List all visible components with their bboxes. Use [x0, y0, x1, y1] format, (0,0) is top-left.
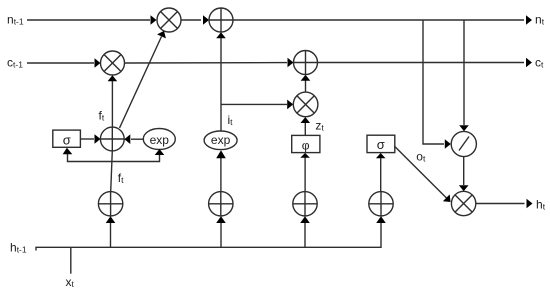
wire E1 to plus G: [124, 134, 143, 144]
svg-text:σ: σ: [377, 137, 385, 152]
wire X3 to h_t output: [476, 199, 533, 209]
wire PH up to X4: [301, 117, 311, 135]
diagonal wire G to X1: [120, 31, 166, 128]
wire riser into J: [106, 216, 116, 247]
plus node G (f gate combiner): [100, 127, 124, 151]
svg-text:nt-1: nt-1: [7, 13, 24, 27]
exp ellipse E2: [204, 131, 237, 150]
svg-text:φ: φ: [302, 139, 310, 153]
svg-text:ft: ft: [118, 171, 124, 185]
wire E2 up to plus P1 with junction: [216, 32, 226, 131]
svg-text:zt: zt: [315, 119, 324, 133]
divide node DIV: [451, 131, 476, 156]
times node X3 (h output gate): [451, 191, 475, 215]
wire riser into L: [300, 216, 310, 247]
svg-text:ot: ot: [416, 150, 426, 164]
wire X4 up to P2: [301, 75, 311, 92]
times node X4 (z gate): [293, 92, 318, 117]
wire DIV to times X3: [459, 157, 469, 192]
svg-text:exp: exp: [211, 133, 231, 147]
svg-text:ct-1: ct-1: [7, 56, 23, 70]
svg-text:ht-1: ht-1: [10, 241, 27, 255]
sigma box S1 (left): [53, 130, 81, 147]
wire G up to X2: [108, 75, 118, 127]
diagonal wire S2 to X3: [394, 146, 450, 202]
wire P2 to c_t output: [318, 58, 533, 68]
wire X1 to plus P1: [181, 15, 209, 25]
svg-text:ct: ct: [535, 56, 544, 70]
plus node P1 (n row): [209, 8, 233, 32]
wire L up to PH: [300, 153, 310, 192]
wire n_t-1 input to times X1: [27, 15, 157, 25]
plus node K (bottom row 2): [209, 192, 233, 216]
bracket wire feeding S1 and E1: [63, 148, 165, 162]
svg-text:σ: σ: [63, 133, 71, 148]
svg-text:ft: ft: [99, 109, 105, 123]
svg-text:xt: xt: [66, 275, 75, 289]
wire X2 to plus P2: [125, 58, 294, 68]
svg-text:nt: nt: [535, 13, 545, 27]
wire riser into K: [216, 216, 226, 247]
wire P1 to n_t output: [233, 15, 532, 25]
wire c_t-1 input to times X2: [27, 58, 101, 68]
wire S1 to plus G: [81, 134, 101, 144]
plus node J (bottom row 1): [98, 192, 122, 216]
wire branch from n row down to divide top (x=464): [459, 20, 469, 131]
svg-text:it: it: [228, 113, 234, 127]
wire K up to exp E2: [216, 150, 226, 191]
times node X1 (n row): [157, 8, 181, 32]
plus node M (bottom row 4): [369, 192, 393, 216]
sigma box S2 (right): [367, 135, 395, 152]
svg-text:exp: exp: [150, 133, 170, 147]
plus node L (bottom row 3): [293, 192, 317, 216]
wire M up to S2: [376, 153, 386, 192]
plus node P2 (c row): [294, 51, 318, 75]
wire x_t stub: [70, 247, 72, 273]
wire h_t-1 bus with corner riser into M: [36, 216, 386, 250]
wire branch from n row down to divide left (x=423): [423, 20, 451, 149]
phi box PH: [292, 135, 320, 152]
wire junction to times X4: [221, 100, 293, 110]
times node X2 (c row): [101, 51, 125, 75]
svg-text:ht: ht: [536, 197, 546, 211]
wire G down to plus J: [111, 151, 113, 192]
exp ellipse E1: [143, 129, 175, 150]
